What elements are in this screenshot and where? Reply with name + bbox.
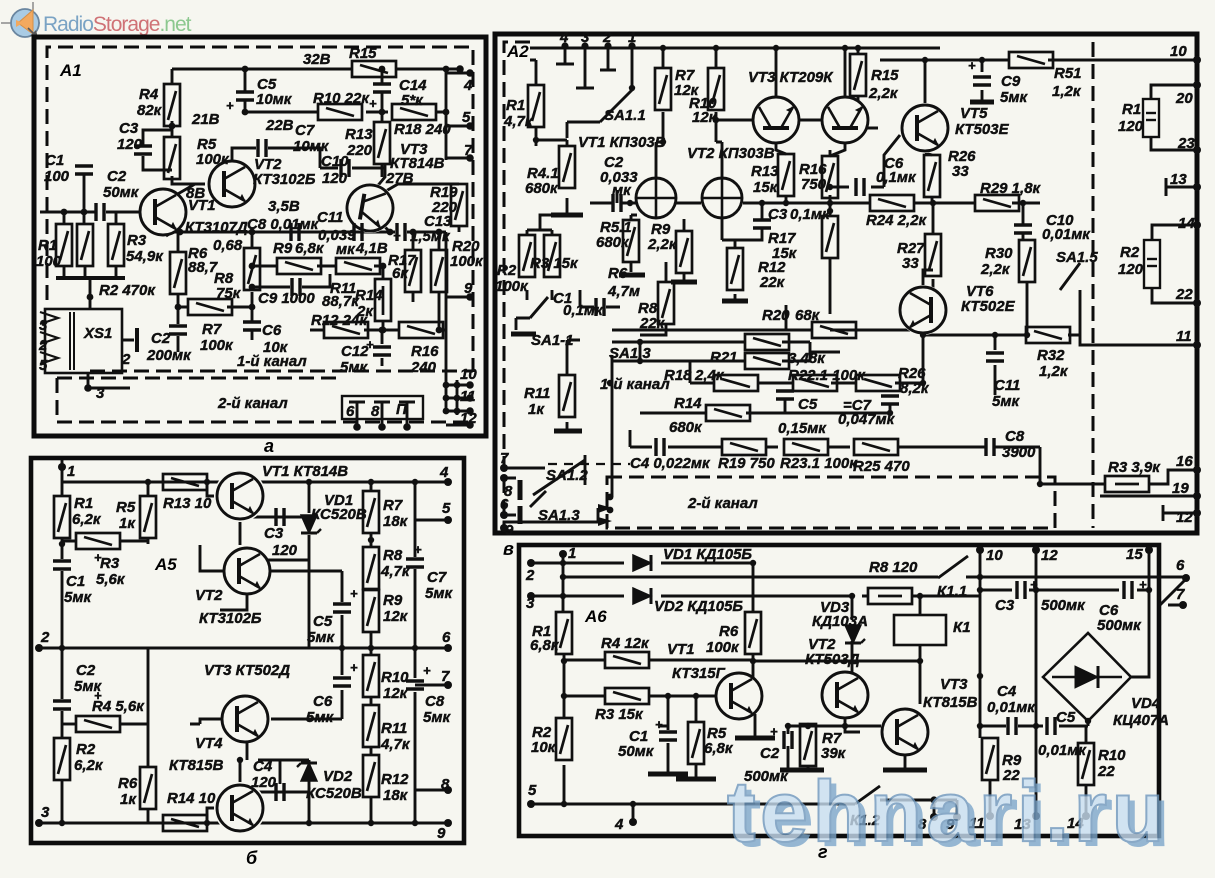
svg-text:100к: 100к [706, 639, 740, 656]
svg-text:R10: R10 [381, 669, 409, 686]
svg-text:R1: R1 [1122, 101, 1141, 118]
svg-text:22: 22 [1175, 286, 1193, 303]
wire C14 column [381, 69, 384, 177]
svg-text:54,9к: 54,9к [126, 248, 164, 265]
svg-text:R20: R20 [762, 307, 790, 324]
wire row 22V [245, 111, 446, 114]
svg-text:20: 20 [1175, 90, 1193, 107]
svg-text:12: 12 [1176, 509, 1193, 526]
capacitor C6 10k [243, 322, 261, 330]
svg-text:39к: 39к [821, 745, 847, 762]
resistor R9 6.8k [277, 258, 321, 274]
svg-text:3: 3 [96, 385, 105, 402]
resistor R11 88.7k [336, 258, 380, 274]
block A2 inner dashed left [504, 42, 530, 528]
transistor VT3 KT209K b [823, 98, 867, 142]
svg-text:8: 8 [441, 776, 450, 793]
ground bar R5 [676, 777, 716, 782]
svg-text:2-й канал: 2-й канал [687, 495, 758, 512]
svg-text:4,7к: 4,7к [503, 113, 534, 130]
wire R11 column [567, 340, 580, 429]
svg-text:КТ815В: КТ815В [169, 757, 224, 774]
wire C4 C5 row [980, 721, 1088, 816]
wire mid rail [39, 647, 448, 650]
wire bottom rail [39, 822, 448, 825]
svg-text:R8 120: R8 120 [869, 559, 918, 576]
resistor R10 12k A2 [708, 68, 724, 110]
svg-text:VD2: VD2 [323, 768, 353, 785]
block A1 inner dashed border [47, 47, 473, 372]
transistor VT3 KT209K a [754, 98, 798, 142]
svg-text:4,7к: 4,7к [380, 563, 411, 580]
svg-text:18к: 18к [383, 513, 409, 530]
svg-text:С6: С6 [262, 322, 282, 339]
wire right column [446, 69, 470, 411]
svg-text:10: 10 [1170, 43, 1187, 60]
svg-text:К1.1: К1.1 [937, 583, 967, 600]
wire C1 branch [660, 696, 668, 772]
transistor VT1 KT814V [214, 470, 266, 522]
wire R9 column [683, 219, 686, 280]
svg-text:10мк: 10мк [256, 91, 293, 108]
wire VT2 collector [232, 148, 320, 168]
svg-text:С12: С12 [341, 343, 369, 360]
resistor R7 100k [188, 299, 232, 315]
capacitor C9 1000 [292, 278, 300, 296]
svg-text:R24 2,2к: R24 2,2к [866, 212, 928, 229]
capacitor C5 0.15mk A2 [776, 391, 794, 399]
svg-text:200мк: 200мк [146, 347, 192, 364]
wire C3/VD1 row [253, 482, 309, 648]
svg-text:С1: С1 [66, 573, 85, 590]
svg-text:КТ3102Б: КТ3102Б [253, 171, 316, 188]
wire R13 column [785, 150, 788, 203]
svg-text:12: 12 [460, 410, 477, 427]
svg-text:R32: R32 [1037, 347, 1065, 364]
fet VT1 KP303V [635, 177, 677, 219]
logo globe [11, 9, 39, 37]
svg-text:А6: А6 [584, 607, 607, 626]
ground bar VT3 [883, 768, 927, 773]
resistor R10 22k [318, 104, 362, 120]
svg-text:С1: С1 [45, 152, 64, 169]
capacitor C11 5mk A2 [986, 353, 1004, 361]
connector small box pins [349, 402, 415, 427]
svg-text:tehnari.ru: tehnari.ru [727, 764, 1169, 860]
resistor R8 75k [244, 248, 260, 290]
wire VD3 column [851, 596, 854, 673]
svg-text:+: + [655, 717, 663, 732]
svg-text:12к: 12к [383, 685, 409, 702]
svg-text:R23.1 100к: R23.1 100к [780, 455, 858, 472]
svg-text:С8 0,01мк: С8 0,01мк [247, 216, 320, 233]
wire C9 column [981, 60, 984, 100]
svg-text:R16: R16 [411, 343, 439, 360]
svg-text:2: 2 [40, 629, 50, 646]
resistor R26 33 [924, 155, 940, 197]
svg-text:КС520В: КС520В [306, 785, 362, 802]
svg-text:С4: С4 [253, 758, 273, 775]
transistor VT6 KT502E [898, 285, 948, 335]
svg-text:3,5В: 3,5В [268, 198, 300, 215]
resistor R3 15k [605, 688, 649, 704]
svg-text:С4: С4 [997, 683, 1017, 700]
svg-text:КТ814В: КТ814В [390, 155, 445, 172]
svg-text:С6: С6 [313, 693, 333, 710]
capacitor C11 0.039 [354, 223, 362, 241]
svg-text:2: 2 [525, 567, 535, 584]
svg-text:82к: 82к [137, 102, 163, 119]
wire pins 6 7 [1160, 579, 1186, 605]
svg-text:R4: R4 [139, 86, 159, 103]
resistor R22.1 100k [793, 375, 837, 391]
switch K1.1 [938, 556, 968, 578]
resistor R1 4.7k A2 [528, 85, 544, 127]
svg-text:5мк: 5мк [425, 585, 453, 602]
resistor R18 240 [392, 104, 436, 120]
svg-text:+: + [366, 337, 374, 352]
resistor R11 1k A2 [559, 375, 575, 417]
wire bias resistors top [64, 212, 116, 224]
svg-text:6: 6 [442, 629, 451, 646]
transistor VT3 KT814V [345, 183, 395, 233]
wire C7 column [415, 482, 448, 823]
svg-text:КТ502Е: КТ502Е [961, 298, 1016, 315]
arrows into channel2 box [598, 504, 612, 526]
wire right column R1b [1151, 85, 1197, 150]
wire VT3 emitter [904, 756, 907, 768]
svg-text:С8: С8 [1005, 428, 1025, 445]
transistor VT3 KT815V [881, 708, 929, 756]
wire R5 branch [695, 696, 698, 777]
wire left column [61, 460, 64, 823]
svg-text:12к: 12к [692, 109, 718, 126]
svg-text:7: 7 [464, 142, 473, 159]
svg-text:19: 19 [1172, 480, 1189, 497]
svg-text:6,8к: 6,8к [530, 637, 560, 654]
svg-text:3: 3 [41, 804, 50, 821]
wire C5 column [244, 69, 247, 112]
wire R9 row [252, 265, 383, 268]
ground bar C2 R7 [780, 768, 824, 773]
wire top rail A2 [530, 47, 940, 50]
switch mech dashes [548, 463, 630, 465]
resistor R17 6k [405, 250, 421, 292]
wire SA1.2 SA1.3 area [504, 455, 598, 528]
svg-text:2: 2 [121, 351, 131, 368]
svg-text:3: 3 [39, 317, 48, 334]
svg-text:С7: С7 [295, 122, 315, 139]
resistor R9 2.2k A2 [676, 231, 692, 273]
resistor R16 240 [399, 322, 443, 338]
resistor R13 220 [374, 122, 390, 164]
svg-text:5мк: 5мк [1000, 89, 1028, 106]
resistor R11 4.7k [363, 705, 379, 747]
svg-text:КС520В: КС520В [311, 506, 367, 523]
svg-text:1: 1 [568, 545, 576, 562]
diode VD2 KD105B [633, 588, 651, 604]
wire pin7 stub [415, 684, 448, 687]
resistor R25 470 [854, 439, 898, 455]
svg-text:1,5мк: 1,5мк [410, 228, 451, 245]
capacitor C4 0.022mk A2 [656, 438, 664, 456]
svg-text:R14: R14 [355, 287, 383, 304]
svg-text:мк: мк [336, 241, 356, 258]
connector small box [342, 396, 423, 419]
transistor VT5 KT503E [900, 103, 950, 153]
svg-text:1-й канал: 1-й канал [237, 353, 307, 370]
wire pin4 stub [632, 804, 635, 822]
wire C3 C6 row [980, 590, 1149, 677]
wire bias resistors bottom bar [56, 276, 125, 280]
wire R2 R3 columns [527, 215, 552, 300]
svg-text:680к: 680к [596, 234, 630, 251]
svg-text:R19 750: R19 750 [718, 455, 775, 472]
svg-text:VT2 КП303В: VT2 КП303В [687, 145, 775, 162]
resistor R8 22k A2 [658, 282, 674, 324]
resistor R21b [745, 353, 789, 369]
capacitor C3 500mk [1017, 581, 1025, 599]
svg-text:R25 470: R25 470 [853, 458, 910, 475]
capacitor C13 1.5mk [397, 223, 405, 241]
junction dots [242, 66, 249, 73]
resistor R19 750 [722, 439, 766, 455]
svg-text:1-й канал: 1-й канал [600, 376, 670, 393]
capacitor C8 3900 [986, 438, 994, 456]
resistor R13 10 [163, 474, 207, 490]
svg-text:4,7к: 4,7к [380, 736, 411, 753]
transistor VT2 KT503D [821, 671, 869, 719]
wire R5 column [62, 482, 148, 544]
block b outer border [31, 458, 464, 843]
wire top rail 32V [172, 68, 460, 71]
svg-text:13: 13 [1170, 171, 1187, 188]
svg-text:R3 15к: R3 15к [530, 255, 579, 272]
svg-text:в: в [503, 539, 514, 559]
bar under SA1-1 [511, 332, 536, 337]
svg-text:2-й канал: 2-й канал [217, 395, 288, 412]
wire C6 column [271, 648, 342, 719]
svg-text:12: 12 [1041, 547, 1058, 564]
svg-text:R12: R12 [381, 771, 409, 788]
svg-text:R6: R6 [608, 265, 628, 282]
wire C5 column [341, 571, 344, 648]
svg-text:50мк: 50мк [618, 743, 655, 760]
resistor R17 15k A2 [822, 216, 838, 258]
svg-text:4: 4 [463, 77, 473, 94]
switch K1.2 [855, 786, 880, 804]
wire C10 column [1022, 203, 1025, 240]
svg-text:R3: R3 [100, 555, 120, 572]
svg-text:R15: R15 [349, 45, 377, 62]
svg-text:R2 470к: R2 470к [99, 282, 156, 299]
svg-text:0,01мк: 0,01мк [1042, 226, 1091, 243]
svg-text:VT3 КТ209К: VT3 КТ209К [748, 69, 834, 86]
resistor R3 54.9k [108, 224, 124, 266]
svg-text:10к: 10к [531, 739, 557, 756]
wire R12 R16 row [310, 329, 446, 332]
wire C12 column [381, 330, 384, 366]
wire pin stubs 4 3 2 1 [556, 46, 632, 88]
switch SA1-1 mid [516, 297, 548, 330]
svg-text:R11: R11 [524, 385, 550, 402]
resistor R20 100k [431, 250, 447, 292]
capacitor C1 0.1mk A2 [596, 298, 604, 316]
capacitor C5 5mk [333, 604, 351, 612]
svg-text:R11: R11 [381, 720, 407, 737]
resistor R3 3.9k A2 [1105, 476, 1149, 492]
wire ladder row1 [640, 342, 840, 361]
wire R3b pins [1040, 470, 1197, 521]
svg-text:R3 3,9к: R3 3,9к [1108, 459, 1161, 476]
svg-text:VD4: VD4 [1131, 695, 1161, 712]
wire VT3 leads [190, 719, 247, 760]
svg-text:500мк: 500мк [1097, 617, 1142, 634]
capacitor C2 500mk [784, 731, 792, 749]
capacitor C8 5mk [406, 681, 424, 689]
resistor R16 750 [822, 156, 838, 198]
wire top rail [62, 481, 448, 484]
svg-text:R13: R13 [751, 163, 779, 180]
resistor R6 100k [745, 612, 761, 654]
svg-text:0,01мк: 0,01мк [987, 699, 1036, 716]
svg-text:С5: С5 [798, 396, 818, 413]
capacitor C1 100 [75, 166, 93, 174]
svg-text:2,2к: 2,2к [868, 85, 899, 102]
svg-text:22к: 22к [759, 274, 786, 291]
svg-text:SA1.1: SA1.1 [604, 107, 646, 124]
svg-text:5мк: 5мк [64, 589, 92, 606]
svg-text:5*к: 5*к [401, 92, 424, 109]
svg-text:5: 5 [462, 109, 471, 126]
wire VT4 leads [207, 760, 240, 830]
resistor R10 22 [1078, 743, 1094, 785]
svg-text:С9: С9 [1001, 73, 1021, 90]
transistor VT3 KT502D [221, 695, 269, 743]
svg-text:68к: 68к [795, 307, 821, 324]
wire R17 R20 columns [413, 232, 439, 330]
capacitor C3 0.1mk A2 [753, 220, 771, 228]
2nd channel dashed box [57, 378, 473, 422]
svg-text:A5: A5 [154, 555, 177, 574]
resistor R23.1 100k [784, 439, 828, 455]
svg-text:R22.1 100к: R22.1 100к [788, 367, 866, 384]
svg-text:R9: R9 [383, 592, 403, 609]
svg-text:КТ315Г: КТ315Г [672, 665, 726, 682]
svg-text:5мк: 5мк [306, 709, 334, 726]
svg-text:6,2к: 6,2к [74, 757, 104, 774]
wire ladder row3 [640, 330, 923, 413]
svg-text:КТ815В: КТ815В [923, 694, 978, 711]
wire R4.1 column [567, 190, 617, 213]
capacitor C5 0.01mk [1047, 717, 1055, 735]
svg-text:22к: 22к [639, 315, 666, 332]
svg-text:С10: С10 [321, 153, 349, 170]
svg-text:VT2: VT2 [195, 587, 223, 604]
svg-text:1,2к: 1,2к [1052, 83, 1082, 100]
resistor R6 0.68 [170, 252, 186, 294]
svg-text:50мк: 50мк [103, 184, 140, 201]
wire VT2 emitter row [788, 719, 881, 768]
wire R14 column [382, 266, 385, 330]
svg-text:С2: С2 [151, 330, 171, 347]
svg-text:7: 7 [441, 668, 450, 685]
svg-text:1к: 1к [528, 401, 545, 418]
svg-text:КТ503Е: КТ503Е [955, 121, 1010, 138]
svg-text:15: 15 [1126, 546, 1143, 563]
svg-text:2,2к: 2,2к [647, 236, 678, 253]
svg-text:5мк: 5мк [307, 629, 335, 646]
capacitor C14 5k [373, 84, 391, 92]
wire rail R51 [880, 59, 1197, 62]
wire R20 68k row [612, 305, 923, 330]
svg-text:+: + [1139, 577, 1147, 592]
svg-text:КТ3107Д: КТ3107Д [185, 219, 248, 236]
wire R7 stack column [370, 482, 373, 823]
wire VT2 leads [200, 545, 342, 610]
svg-text:3,48к: 3,48к [788, 350, 826, 367]
svg-text:240: 240 [410, 359, 437, 376]
wire XS1 output [88, 340, 134, 388]
resistor R18 2.4k [714, 375, 758, 391]
svg-text:R6: R6 [719, 623, 739, 640]
svg-text:VT1 КТ814В: VT1 КТ814В [262, 463, 348, 480]
resistor R5.1 680k [623, 220, 639, 262]
zener VD1 KS520V [301, 515, 321, 533]
svg-text:R18: R18 [664, 367, 692, 384]
capacitor C6 5mk [333, 678, 351, 686]
svg-text:7: 7 [1176, 586, 1185, 603]
capacitor C3 120 [134, 146, 152, 154]
resistor R2 100k A2 [519, 235, 535, 277]
wire pin5 stub [415, 519, 448, 522]
svg-text:П: П [396, 401, 408, 418]
resistor R9 12k [363, 590, 379, 632]
wire VT6 row R32 [923, 270, 1197, 345]
capacitor C12 5mk [373, 347, 391, 355]
wire VT1 collector [176, 184, 195, 195]
svg-text:23: 23 [1177, 135, 1195, 152]
capacitor C7 10mk [258, 139, 266, 157]
svg-text:С11: С11 [317, 209, 343, 226]
resistor R8 4.7k [363, 547, 379, 589]
capacitor C7 5mk [406, 559, 424, 567]
resistor R12 22k A2 [727, 248, 743, 290]
svg-text:100: 100 [44, 168, 70, 185]
svg-text:КТ3102Б: КТ3102Б [199, 610, 262, 627]
svg-text:б: б [246, 848, 258, 868]
resistor R15 [352, 61, 396, 77]
wire VT3 pair [776, 48, 845, 156]
resistor R20 68k A2 [812, 322, 856, 338]
ground bar VT1 [735, 736, 775, 741]
wire main bus [166, 232, 446, 236]
dashed line above 2-nd channel [90, 370, 473, 373]
svg-text:С3: С3 [264, 525, 284, 542]
resistor R1 6.2k [54, 496, 70, 538]
svg-text:VD1 КД105Б: VD1 КД105Б [663, 546, 752, 563]
svg-text:15к: 15к [753, 179, 779, 196]
svg-text:680к: 680к [525, 180, 559, 197]
svg-text:R5: R5 [116, 499, 136, 516]
resistor R7 12k A2 [655, 68, 671, 110]
XS1 plug symbol [135, 328, 139, 352]
svg-text:+: + [350, 586, 358, 601]
resistor R14 680k [706, 405, 750, 421]
svg-text:VT3: VT3 [940, 676, 968, 693]
wire R4 row [564, 659, 753, 662]
capacitor C2 5mk [53, 701, 71, 709]
